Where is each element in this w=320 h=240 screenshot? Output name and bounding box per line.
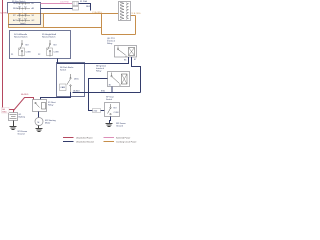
relay K1 box	[33, 100, 47, 112]
svg-text:Unswitched Power: Unswitched Power	[76, 136, 93, 139]
svg-text:Motor: Motor	[45, 122, 51, 125]
wire orange cranking top	[44, 13, 119, 15]
svg-text:1A BLK: 1A BLK	[73, 90, 81, 93]
svg-text:NO: NO	[54, 45, 58, 47]
wire navy SE pin 87 stub	[111, 87, 113, 93]
ground seat	[106, 124, 113, 127]
motor M1	[35, 118, 43, 126]
wire navy interlock bottom run	[73, 92, 141, 94]
svg-text:(NO): (NO)	[74, 79, 79, 81]
svg-text:Neutral Switch: Neutral Switch	[42, 36, 56, 39]
svg-text:Switch: Switch	[60, 69, 67, 72]
relay SE contact	[111, 73, 120, 87]
svg-text:M: M	[38, 122, 40, 124]
key switch contacts row A	[13, 2, 35, 5]
legend line samples	[63, 138, 114, 142]
svg-text:Switched Power: Switched Power	[116, 136, 131, 139]
wire orange connector out	[130, 15, 136, 17]
svg-text:NO: NO	[114, 108, 118, 110]
svg-text:Cranking Circuit Power: Cranking Circuit Power	[116, 140, 137, 143]
relay SE box	[108, 72, 130, 87]
wire orange right riser	[135, 16, 137, 35]
wire battery to ground	[13, 121, 15, 127]
wire pink switched power	[41, 3, 73, 5]
wire orange lower return	[102, 34, 136, 36]
connector C1 pins	[120, 2, 129, 19]
svg-text:(start): (start)	[20, 22, 26, 25]
wire red battery to start relay diagonal	[14, 98, 34, 111]
svg-text:Unswitched Ground: Unswitched Ground	[76, 140, 94, 143]
svg-text:C1 B ORG: C1 B ORG	[131, 13, 141, 15]
relay SE coil	[122, 74, 128, 84]
wire orange cranking bottom	[44, 27, 102, 29]
wire navy K1 to motor	[38, 112, 40, 118]
svg-text:COM: COM	[26, 52, 31, 54]
svg-text:Battery: Battery	[19, 116, 27, 119]
svg-text:NO: NO	[26, 45, 30, 47]
park brake switch symbol	[67, 74, 71, 92]
fuse F1	[73, 2, 79, 6]
key switch linkage	[22, 3, 24, 22]
neutral switches box	[10, 31, 71, 59]
fuse F2	[73, 7, 79, 11]
ground motor	[36, 129, 43, 132]
svg-text:F1 20A: F1 20A	[80, 0, 87, 3]
wire red battery feed left side	[3, 0, 14, 113]
battery G1	[9, 113, 18, 121]
wire navy row B	[41, 8, 73, 10]
key switch box	[8, 3, 41, 25]
key switch contacts row B	[13, 7, 35, 11]
svg-text:RED: RED	[86, 6, 91, 8]
wire navy neutral bus	[58, 57, 129, 64]
wire seat switch to ground	[110, 117, 111, 124]
wire orange mid riser	[101, 14, 103, 35]
svg-text:CAM: CAM	[60, 86, 65, 89]
svg-text:C1 A ORG: C1 A ORG	[92, 11, 102, 14]
relay QD contact	[117, 47, 126, 58]
wire navy SE to seat switch	[89, 79, 108, 111]
svg-text:ACC: ACC	[13, 19, 18, 22]
seat switch box	[105, 103, 120, 117]
svg-text:Neutral Switch: Neutral Switch	[14, 36, 28, 39]
relay QD box	[115, 46, 137, 58]
cranking highlight box	[9, 14, 44, 28]
ground battery	[10, 127, 17, 130]
right neutral switch symbol	[48, 40, 51, 57]
svg-text:6A RED: 6A RED	[21, 93, 29, 96]
key switch contacts row C	[13, 14, 35, 18]
svg-text:6A RED: 6A RED	[0, 12, 8, 15]
svg-text:COM: COM	[54, 52, 59, 54]
relay QD coil	[129, 48, 135, 56]
park brake switch box	[57, 63, 85, 97]
label red wire	[2, 108, 10, 114]
wire label box	[93, 109, 101, 113]
svg-text:22A PINK: 22A PINK	[60, 1, 70, 4]
svg-text:Ground: Ground	[116, 125, 124, 128]
svg-text:RED: RED	[2, 111, 7, 113]
svg-text:Switch: Switch	[106, 98, 113, 101]
svg-text:COM: COM	[114, 112, 119, 114]
key switch contacts row D	[13, 19, 35, 23]
wire navy park brake to K1	[41, 92, 71, 100]
left neutral switch symbol	[20, 40, 23, 57]
connector C1	[119, 2, 131, 21]
svg-text:Ground: Ground	[18, 133, 26, 136]
wire navy from fuse	[79, 4, 91, 11]
wire navy QD down right side	[132, 57, 141, 93]
svg-text:87A: 87A	[101, 89, 105, 92]
wire motor to ground	[38, 126, 40, 129]
